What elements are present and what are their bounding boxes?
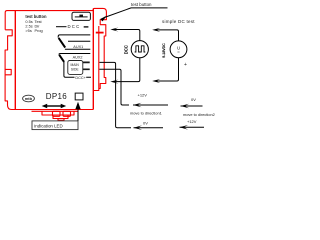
svg-text:SIDE: SIDE	[71, 67, 79, 71]
MAIN/SIDE box	[68, 61, 90, 75]
indication LED square	[75, 93, 83, 100]
DCC+ riser and wire	[64, 62, 91, 78]
middle contact wire	[68, 40, 90, 42]
switch1 blade	[59, 38, 66, 48]
svg-text:mtb: mtb	[25, 96, 33, 101]
inner wiring black	[56, 27, 91, 77]
svg-text:Prog: Prog	[35, 28, 43, 33]
test button annotation	[100, 2, 167, 21]
switch2 blade	[59, 55, 64, 62]
svg-text:0V: 0V	[143, 120, 148, 125]
DCC source circuit	[113, 30, 148, 82]
wire A +12V	[99, 69, 129, 105]
top wire	[113, 30, 140, 41]
svg-text:simple DC test: simple DC test	[162, 19, 195, 24]
svg-text:MAIN: MAIN	[71, 63, 80, 67]
svg-text:AUX2: AUX2	[73, 55, 83, 59]
AUX1 wire	[65, 48, 90, 50]
body inner left line	[14, 11, 16, 110]
bottom wire	[113, 58, 140, 82]
svg-text:DP16: DP16	[46, 92, 67, 101]
bottom pins	[53, 111, 61, 116]
+12V arrow left	[133, 103, 142, 108]
bottom step profile	[32, 110, 79, 112]
left ear slot	[5, 30, 93, 110]
svg-text:9-18VDC: 9-18VDC	[162, 43, 166, 58]
svg-text:indication LED: indication LED	[34, 123, 62, 128]
terminal inner line	[98, 26, 100, 88]
device body outline	[5, 11, 93, 30]
wire B 0V	[99, 62, 131, 127]
left ear2 slot	[5, 69, 11, 74]
svg-text:AUX1: AUX1	[73, 45, 83, 49]
svg-text:0V: 0V	[191, 97, 196, 102]
terminal pin stub	[96, 32, 104, 34]
svg-text:move to direction1: move to direction1	[130, 111, 162, 116]
svg-text:test button: test button	[131, 2, 152, 7]
inner labels	[68, 24, 87, 80]
test button legend text	[25, 14, 47, 33]
travel double arrow	[42, 104, 66, 108]
svg-text:+: +	[184, 62, 187, 68]
svg-text:>5s: >5s	[25, 28, 31, 33]
square wave glyph	[135, 46, 146, 52]
direction wires	[99, 62, 131, 127]
0V arrow left	[134, 125, 143, 130]
button tower	[93, 8, 106, 90]
indication LED callout	[32, 102, 81, 130]
svg-text:DCC: DCC	[123, 45, 128, 54]
switch2 common wire	[59, 54, 90, 55]
svg-text:DCC: DCC	[68, 24, 81, 29]
mtb logo	[23, 95, 35, 102]
DCC arrows	[110, 28, 118, 32]
switch1 common wire	[58, 35, 90, 38]
button housing	[72, 12, 90, 20]
DCC- wire	[56, 26, 67, 28]
svg-text:move to direction2: move to direction2	[183, 112, 215, 117]
svg-text:+12V: +12V	[138, 93, 148, 98]
svg-text:+12V: +12V	[187, 119, 197, 124]
svg-text:DCC+: DCC+	[75, 76, 86, 80]
body right edge	[92, 9, 94, 110]
